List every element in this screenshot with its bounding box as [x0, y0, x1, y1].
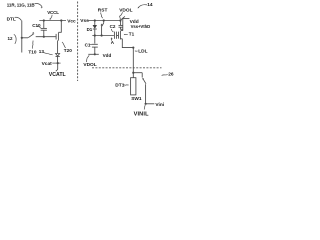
svg-text:VINIL: VINIL	[134, 111, 149, 117]
svg-text:Vss+VthD: Vss+VthD	[131, 24, 151, 29]
boundary dashed horizontal	[92, 67, 162, 69]
wire node row B	[92, 35, 114, 37]
junction dot rail-RST switch	[103, 19, 105, 21]
leader hook for 11R,11G,11B	[35, 4, 43, 8]
svg-text:11R, 11G, 11B: 11R, 11G, 11B	[7, 2, 36, 7]
wire right top rail	[88, 20, 121, 22]
leader DTL	[15, 17, 22, 20]
svg-text:14: 14	[147, 2, 153, 8]
svg-text:DTL: DTL	[7, 17, 16, 22]
node Vcat junction	[57, 62, 59, 64]
switch VDDL blade	[121, 16, 125, 20]
svg-text:26: 26	[168, 71, 174, 77]
svg-text:C2: C2	[110, 24, 116, 29]
leader C1	[90, 43, 92, 46]
leader 12	[14, 34, 16, 43]
node dot under C10	[43, 36, 45, 38]
junction dot J2	[145, 103, 147, 105]
node dot on DTL	[21, 37, 23, 39]
svg-text:RST: RST	[98, 7, 108, 13]
svg-text:A: A	[111, 40, 115, 45]
switch T10 stub	[22, 37, 28, 39]
wire LDL line	[132, 48, 134, 73]
leader RST	[101, 12, 103, 18]
leader VCCL arrow	[50, 15, 52, 19]
svg-text:LDL: LDL	[138, 49, 147, 55]
leader 13	[44, 52, 53, 54]
wire J1 to DT1	[132, 73, 134, 78]
leader T1	[124, 33, 128, 36]
wire VDOL line bottom	[88, 53, 99, 55]
wire Vdd stub	[123, 18, 130, 20]
wire J2 to Vini	[146, 103, 155, 105]
leader Vcat dash	[52, 62, 60, 64]
leader C2	[111, 29, 113, 32]
wire Vcc rail	[39, 20, 66, 22]
svg-text:VCCL: VCCL	[47, 10, 59, 15]
junction dot rail-T20	[60, 19, 62, 21]
svg-text:Vini: Vini	[155, 102, 164, 108]
leader VDOL bottom	[86, 55, 89, 62]
svg-text:Vcc: Vcc	[67, 19, 76, 25]
svg-text:VCATL: VCATL	[49, 72, 67, 78]
junction dot LDL-source	[132, 47, 134, 49]
svg-text:Vdd: Vdd	[103, 53, 112, 58]
leader T10	[31, 41, 34, 49]
junction dot rail-VDDL switch pivot	[119, 19, 121, 21]
wire data line DTL	[21, 21, 23, 53]
svg-text:VDOL: VDOL	[119, 7, 132, 13]
junction dot J1	[132, 72, 134, 74]
leader VINIL	[144, 105, 145, 109]
junction dot B-RST	[101, 34, 103, 36]
wire below Vcat	[56, 63, 58, 71]
junction dot B-D1	[94, 34, 96, 36]
svg-text:D1: D1	[87, 27, 93, 32]
svg-text:VDOL: VDOL	[83, 62, 96, 68]
resistor box DT1	[131, 78, 136, 95]
junction dot rail-D1	[94, 19, 96, 21]
capacitor C10	[43, 21, 45, 29]
leader VDOL top	[120, 12, 123, 19]
transistor T20	[60, 21, 62, 33]
boundary dashed divider	[77, 2, 79, 82]
wire node row (T10 to T20 gate)	[36, 36, 56, 38]
switch RST blade	[103, 21, 105, 23]
svg-text:Vcat: Vcat	[42, 61, 53, 67]
leader DT1	[123, 84, 129, 86]
svg-text:T20: T20	[64, 48, 72, 53]
switch T10 blade	[28, 34, 34, 38]
svg-text:12: 12	[8, 36, 14, 41]
wire J1 to SW1	[133, 72, 142, 74]
leader C10	[37, 26, 41, 28]
transistor T1	[118, 32, 120, 39]
capacitor C1	[94, 36, 96, 44]
diode D1	[94, 21, 96, 26]
LED organic EL element 13	[56, 54, 60, 57]
svg-text:SW1: SW1	[131, 96, 142, 102]
switch RST lower terminal arrow	[101, 25, 103, 36]
label LDL	[135, 50, 138, 52]
svg-text:T1: T1	[129, 31, 135, 36]
leader 26	[162, 75, 168, 76]
capacitor under VDDL switch	[120, 21, 122, 26]
leader 14	[138, 5, 147, 8]
svg-text:DT1: DT1	[115, 83, 124, 89]
node A arrow	[111, 38, 113, 41]
leader T20	[62, 42, 66, 48]
svg-text:13: 13	[39, 49, 45, 54]
switch SW1	[141, 73, 143, 78]
junction dot VDOL-C1	[94, 53, 96, 55]
capacitor C2	[113, 32, 115, 39]
junction dot rail-C10	[43, 19, 45, 21]
svg-text:T10: T10	[28, 49, 36, 54]
